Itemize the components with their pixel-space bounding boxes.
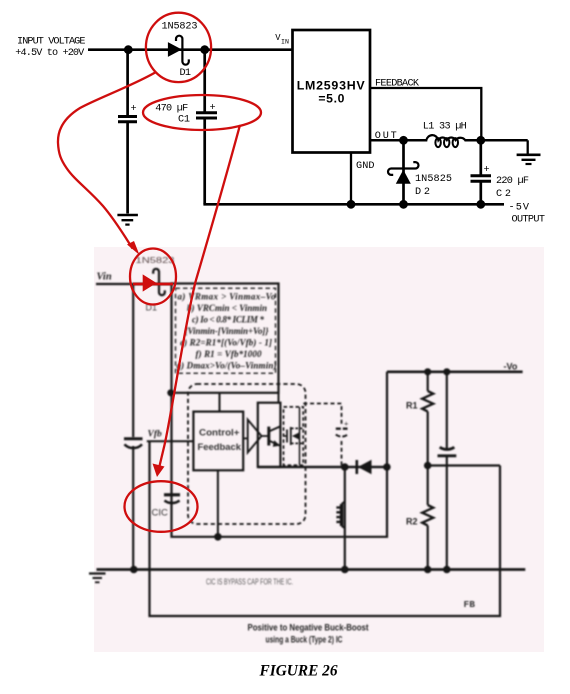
svg-text:-5V: -5V — [509, 203, 530, 214]
svg-text:Vin: Vin — [97, 272, 112, 283]
svg-text:470 µF: 470 µF — [155, 104, 188, 115]
svg-text:Positive to Negative Buck-Boos: Positive to Negative Buck-Boost — [248, 623, 370, 634]
svg-text:R1: R1 — [406, 401, 418, 411]
svg-text:LM2593HV: LM2593HV — [297, 79, 366, 93]
svg-text:Feedback: Feedback — [198, 442, 242, 452]
svg-text:1N5825: 1N5825 — [415, 174, 452, 185]
svg-text:GND: GND — [356, 161, 375, 172]
svg-text:D2: D2 — [415, 187, 430, 198]
svg-text:e) R2=R1*[(Vo/Vfb) - 1]: e) R2=R1*[(Vo/Vfb) - 1] — [180, 338, 272, 348]
svg-text:CIC IS BYPASS CAP FOR THE IC.: CIC IS BYPASS CAP FOR THE IC. — [206, 578, 293, 587]
svg-text:FIGURE 26: FIGURE 26 — [259, 663, 338, 680]
svg-text:FEEDBACK: FEEDBACK — [375, 78, 420, 89]
svg-text:FB: FB — [464, 599, 476, 610]
svg-text:OUT: OUT — [375, 131, 397, 142]
svg-text:-Vo: -Vo — [504, 362, 518, 372]
svg-text:c) Io < 0.8* ICLIM *: c) Io < 0.8* ICLIM * — [192, 315, 265, 325]
svg-text:C2: C2 — [496, 189, 511, 200]
svg-text:CIC: CIC — [152, 508, 169, 519]
svg-text:Control+: Control+ — [199, 428, 240, 438]
svg-text:=5.0: =5.0 — [318, 92, 344, 106]
svg-text:OUTPUT: OUTPUT — [512, 214, 546, 225]
svg-text:220 µF: 220 µF — [496, 176, 529, 187]
svg-text:f) R1 = Vfb*1000: f) R1 = Vfb*1000 — [196, 349, 263, 359]
svg-text:+4.5V to +20V: +4.5V to +20V — [15, 48, 85, 59]
svg-text:R2: R2 — [406, 517, 418, 527]
svg-text:+: + — [484, 165, 490, 176]
svg-text:g) Dmax>Vo/(Vo–Vinmin): g) Dmax>Vo/(Vo–Vinmin) — [176, 361, 277, 371]
svg-text:1N5823: 1N5823 — [162, 21, 198, 32]
svg-text:using a Buck (Type 2) IC: using a Buck (Type 2) IC — [266, 635, 343, 645]
svg-text:{Vinmin-[Vinmin+Vo]}: {Vinmin-[Vinmin+Vo]} — [185, 326, 270, 336]
svg-text:Vfb: Vfb — [148, 430, 163, 440]
svg-text:+: + — [131, 104, 137, 115]
svg-text:D1: D1 — [180, 68, 192, 79]
svg-text:+: + — [344, 419, 349, 428]
svg-text:C1: C1 — [178, 115, 190, 126]
svg-text:IN: IN — [281, 38, 289, 45]
svg-text:+: + — [210, 103, 216, 114]
svg-text:b) VRCmin < Vinmin: b) VRCmin < Vinmin — [187, 303, 267, 313]
svg-text:INPUT VOLTAGE: INPUT VOLTAGE — [17, 36, 86, 47]
svg-text:L1 33 µH: L1 33 µH — [423, 121, 467, 132]
